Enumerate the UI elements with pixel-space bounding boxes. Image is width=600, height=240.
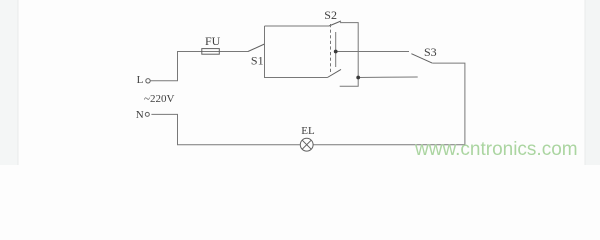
svg-text:~220V: ~220V [144, 93, 174, 105]
switch S2 upper blade [329, 21, 341, 26]
switch S2 lower blade [327, 69, 341, 77]
switch S3 blade [411, 54, 432, 63]
wire S3 lower throw [358, 76, 418, 79]
svg-text:FU: FU [205, 34, 221, 48]
wire lamp to N [151, 114, 300, 144]
wire L to fuse [150, 52, 248, 81]
wire lower branch [265, 77, 328, 79]
svg-text:S1: S1 [251, 54, 264, 68]
wire node to S3 upper throw [336, 51, 409, 53]
svg-text:L: L [137, 74, 144, 86]
dashed mechanical link S2 [330, 24, 332, 73]
lamp EL [300, 138, 313, 151]
node junction lower [356, 76, 360, 80]
svg-text:N: N [136, 109, 144, 121]
right scan band [585, 0, 600, 165]
node junction upper [334, 50, 338, 54]
svg-text:S3: S3 [424, 45, 437, 59]
wire vertical bus after S1 [264, 26, 266, 78]
svg-text:EL: EL [301, 125, 315, 137]
svg-text:S2: S2 [324, 8, 337, 22]
terminal N circle [145, 112, 149, 116]
wire S2 upper output [340, 23, 358, 78]
wire S3 to right side [432, 63, 465, 145]
switch S1 blade [248, 44, 265, 52]
wire mid contact vertical [335, 32, 337, 67]
wire top branch to S2 [265, 25, 330, 27]
svg-text:www.cntronics.com: www.cntronics.com [414, 139, 578, 160]
wire bottom right to lamp [313, 144, 465, 146]
left scan band [0, 0, 18, 165]
fuse FU [202, 49, 220, 55]
terminal L circle [146, 79, 150, 83]
wire S2 lower cross link [340, 78, 359, 87]
